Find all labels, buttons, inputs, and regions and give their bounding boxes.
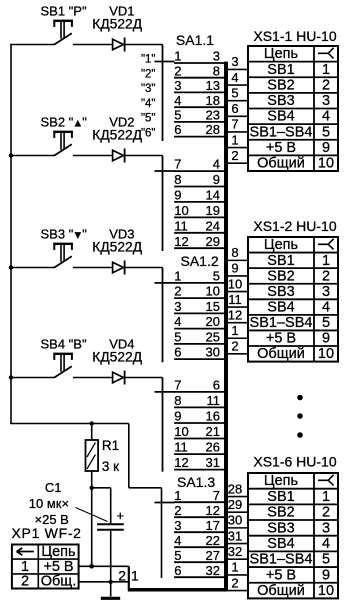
svg-text:5: 5 bbox=[174, 108, 181, 123]
svg-text:6: 6 bbox=[174, 563, 181, 578]
svg-text:31: 31 bbox=[206, 455, 220, 470]
svg-text:2: 2 bbox=[231, 148, 238, 163]
svg-text:28: 28 bbox=[206, 122, 220, 137]
svg-text:1: 1 bbox=[21, 559, 29, 575]
svg-text:R1: R1 bbox=[102, 438, 119, 453]
svg-text:9: 9 bbox=[322, 567, 330, 583]
svg-text:5: 5 bbox=[322, 552, 330, 568]
svg-text:8: 8 bbox=[231, 245, 238, 260]
svg-text:"3": "3" bbox=[141, 83, 156, 95]
svg-text:4: 4 bbox=[322, 109, 330, 125]
svg-text:1: 1 bbox=[231, 323, 238, 338]
svg-text:КД522Д: КД522Д bbox=[92, 240, 142, 255]
svg-text:+: + bbox=[117, 508, 125, 523]
svg-text:SB2: SB2 bbox=[267, 77, 294, 93]
svg-text:4: 4 bbox=[174, 533, 181, 548]
svg-text:SB4 "В": SB4 "В" bbox=[41, 336, 87, 351]
svg-text:16: 16 bbox=[206, 409, 220, 424]
svg-text:SA1.2: SA1.2 bbox=[181, 253, 219, 269]
svg-text:10: 10 bbox=[228, 276, 242, 291]
svg-text:Общий: Общий bbox=[257, 346, 305, 362]
svg-text:10: 10 bbox=[174, 203, 188, 218]
svg-text:29: 29 bbox=[228, 497, 242, 512]
svg-text:6: 6 bbox=[174, 345, 181, 360]
svg-text:10: 10 bbox=[318, 346, 334, 362]
svg-text:17: 17 bbox=[206, 518, 220, 533]
svg-text:6: 6 bbox=[174, 122, 181, 137]
svg-text:SA1.1: SA1.1 bbox=[176, 32, 214, 48]
svg-text:SB3 "▼": SB3 "▼" bbox=[41, 226, 88, 241]
svg-text:SB3: SB3 bbox=[267, 284, 294, 300]
svg-text:XS1-1 HU-10: XS1-1 HU-10 bbox=[253, 28, 336, 44]
svg-text:12: 12 bbox=[206, 503, 220, 518]
svg-text:SB3: SB3 bbox=[267, 93, 294, 109]
svg-text:20: 20 bbox=[206, 314, 220, 329]
svg-text:3: 3 bbox=[174, 518, 181, 533]
svg-text:SB1: SB1 bbox=[267, 489, 294, 505]
svg-text:11: 11 bbox=[174, 440, 188, 455]
svg-text:КД522Д: КД522Д bbox=[92, 350, 142, 365]
svg-text:32: 32 bbox=[228, 544, 242, 559]
svg-text:1: 1 bbox=[174, 49, 181, 64]
svg-text:3: 3 bbox=[322, 284, 330, 300]
svg-text:2: 2 bbox=[21, 574, 29, 590]
svg-text:1: 1 bbox=[322, 253, 330, 269]
svg-text:SA1.3: SA1.3 bbox=[177, 474, 215, 490]
svg-text:SB2: SB2 bbox=[267, 505, 294, 521]
svg-text:1: 1 bbox=[231, 132, 238, 147]
svg-text:5: 5 bbox=[231, 85, 238, 100]
svg-text:7: 7 bbox=[174, 378, 181, 393]
svg-text:1: 1 bbox=[322, 489, 330, 505]
svg-text:30: 30 bbox=[206, 345, 220, 360]
svg-text:SB1–SB4: SB1–SB4 bbox=[250, 552, 313, 568]
svg-text:2: 2 bbox=[118, 567, 126, 583]
svg-text:SB1: SB1 bbox=[267, 62, 294, 78]
svg-text:11: 11 bbox=[228, 292, 242, 307]
svg-text:4: 4 bbox=[174, 314, 181, 329]
svg-text:10: 10 bbox=[318, 583, 334, 599]
svg-text:SB1 "Р": SB1 "Р" bbox=[41, 3, 87, 18]
svg-text:12: 12 bbox=[174, 234, 188, 249]
svg-text:29: 29 bbox=[206, 234, 220, 249]
svg-text:SB2 "▲": SB2 "▲" bbox=[41, 114, 88, 129]
svg-text:+5 В: +5 В bbox=[266, 140, 296, 156]
svg-text:30: 30 bbox=[228, 513, 242, 528]
svg-text:3: 3 bbox=[174, 299, 181, 314]
svg-text:19: 19 bbox=[206, 203, 220, 218]
svg-text:14: 14 bbox=[206, 188, 220, 203]
svg-text:25: 25 bbox=[206, 330, 220, 345]
svg-text:12: 12 bbox=[228, 307, 242, 322]
svg-text:+5 В: +5 В bbox=[266, 567, 296, 583]
svg-text:9: 9 bbox=[213, 172, 220, 187]
svg-text:10: 10 bbox=[206, 284, 220, 299]
svg-text:18: 18 bbox=[206, 93, 220, 108]
svg-text:8: 8 bbox=[213, 63, 220, 78]
svg-text:12: 12 bbox=[174, 455, 188, 470]
svg-text:28: 28 bbox=[228, 481, 242, 496]
svg-text:XS1-2 HU-10: XS1-2 HU-10 bbox=[253, 218, 336, 234]
svg-text:11: 11 bbox=[207, 393, 221, 408]
svg-text:7: 7 bbox=[174, 157, 181, 172]
svg-text:1: 1 bbox=[131, 567, 139, 583]
svg-text:"1": "1" bbox=[141, 54, 156, 66]
svg-text:24: 24 bbox=[206, 218, 220, 233]
svg-text:2: 2 bbox=[322, 268, 330, 284]
svg-text:9: 9 bbox=[322, 140, 330, 156]
svg-text:+5 В: +5 В bbox=[43, 559, 73, 575]
svg-text:1: 1 bbox=[174, 269, 181, 284]
svg-text:8: 8 bbox=[174, 393, 181, 408]
svg-text:Общий: Общий bbox=[257, 156, 305, 172]
svg-text:Цепь: Цепь bbox=[41, 544, 75, 560]
svg-text:1: 1 bbox=[231, 560, 238, 575]
svg-text:2: 2 bbox=[231, 575, 238, 590]
svg-text:5: 5 bbox=[174, 330, 181, 345]
svg-text:"6": "6" bbox=[141, 127, 156, 139]
svg-text:XP1 WF-2: XP1 WF-2 bbox=[12, 525, 82, 541]
svg-text:7: 7 bbox=[231, 117, 238, 132]
svg-text:31: 31 bbox=[228, 528, 242, 543]
svg-text:5: 5 bbox=[322, 315, 330, 331]
svg-text:3: 3 bbox=[213, 49, 220, 64]
svg-text:Цепь: Цепь bbox=[264, 46, 298, 62]
svg-text:2: 2 bbox=[322, 505, 330, 521]
svg-text:5: 5 bbox=[322, 124, 330, 140]
svg-text:4: 4 bbox=[213, 157, 220, 172]
svg-text:3: 3 bbox=[322, 520, 330, 536]
svg-text:27: 27 bbox=[206, 548, 220, 563]
svg-text:Общ.: Общ. bbox=[41, 574, 77, 590]
svg-text:SB1–SB4: SB1–SB4 bbox=[250, 124, 313, 140]
svg-text:SB2: SB2 bbox=[267, 268, 294, 284]
svg-text:10: 10 bbox=[174, 424, 188, 439]
svg-text:10: 10 bbox=[318, 156, 334, 172]
svg-text:3: 3 bbox=[322, 93, 330, 109]
svg-text:Цепь: Цепь bbox=[264, 473, 298, 489]
svg-text:"4": "4" bbox=[141, 98, 156, 110]
svg-text:Общий: Общий bbox=[257, 583, 305, 599]
svg-text:4: 4 bbox=[322, 536, 330, 552]
svg-text:13: 13 bbox=[206, 78, 220, 93]
svg-text:6: 6 bbox=[231, 101, 238, 116]
svg-text:"2": "2" bbox=[141, 68, 156, 80]
svg-text:КД522Д: КД522Д bbox=[92, 17, 142, 32]
svg-text:2: 2 bbox=[231, 339, 238, 354]
svg-text:8: 8 bbox=[174, 172, 181, 187]
svg-text:2: 2 bbox=[322, 77, 330, 93]
svg-text:C1: C1 bbox=[45, 480, 62, 495]
svg-text:11: 11 bbox=[174, 218, 188, 233]
svg-text:Цепь: Цепь bbox=[264, 237, 298, 253]
svg-text:1: 1 bbox=[322, 62, 330, 78]
svg-text:4: 4 bbox=[322, 299, 330, 315]
svg-text:15: 15 bbox=[206, 299, 220, 314]
svg-text:SB4: SB4 bbox=[267, 299, 294, 315]
svg-text:SB1–SB4: SB1–SB4 bbox=[250, 315, 313, 331]
svg-text:5: 5 bbox=[213, 269, 220, 284]
svg-text:3: 3 bbox=[174, 78, 181, 93]
svg-text:SB4: SB4 bbox=[267, 109, 294, 125]
svg-text:32: 32 bbox=[206, 563, 220, 578]
svg-text:SB3: SB3 bbox=[267, 520, 294, 536]
svg-text:SB1: SB1 bbox=[267, 253, 294, 269]
svg-text:9: 9 bbox=[322, 331, 330, 347]
svg-text:5: 5 bbox=[174, 548, 181, 563]
svg-text:22: 22 bbox=[206, 533, 220, 548]
svg-text:3 к: 3 к bbox=[102, 459, 119, 474]
svg-text:6: 6 bbox=[213, 378, 220, 393]
svg-text:10 мк×: 10 мк× bbox=[29, 496, 69, 511]
svg-text:9: 9 bbox=[174, 188, 181, 203]
svg-text:21: 21 bbox=[206, 424, 220, 439]
svg-text:SB4: SB4 bbox=[267, 536, 294, 552]
svg-text:"5": "5" bbox=[141, 113, 156, 125]
svg-text:4: 4 bbox=[174, 93, 181, 108]
svg-text:2: 2 bbox=[174, 63, 181, 78]
svg-text:2: 2 bbox=[174, 503, 181, 518]
svg-text:3: 3 bbox=[231, 54, 238, 69]
svg-text:23: 23 bbox=[206, 108, 220, 123]
svg-text:9: 9 bbox=[174, 409, 181, 424]
svg-text:XS1-6 HU-10: XS1-6 HU-10 bbox=[253, 454, 336, 470]
svg-text:2: 2 bbox=[174, 284, 181, 299]
svg-text:+5 В: +5 В bbox=[266, 331, 296, 347]
svg-text:КД522Д: КД522Д bbox=[92, 128, 142, 143]
svg-text:9: 9 bbox=[231, 261, 238, 276]
svg-text:4: 4 bbox=[231, 70, 238, 85]
svg-text:26: 26 bbox=[206, 440, 220, 455]
